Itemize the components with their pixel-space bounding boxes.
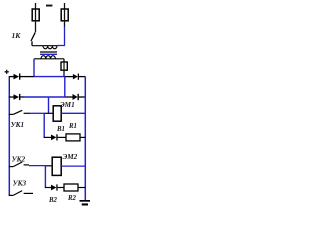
fuse F1 top-left lead wire <box>35 3 37 9</box>
svg-text:1К: 1К <box>12 31 22 40</box>
wire ЭМ1 to right rail <box>61 112 85 114</box>
svg-text:УК3: УК3 <box>13 180 27 188</box>
rail A wire <box>9 76 14 78</box>
relay coil ЭМ1 <box>53 106 61 121</box>
diode D4 on rail B right <box>73 94 78 100</box>
relay coil ЭМ2 <box>52 157 61 175</box>
wire УК1 to ЭМ1 <box>24 112 30 114</box>
diode В1 <box>51 135 56 141</box>
fuse F2 top-right lead wire <box>64 3 66 9</box>
ground symbol <box>80 200 91 202</box>
minus polarity mark <box>46 5 52 7</box>
fuse F3 <box>61 62 67 70</box>
svg-text:УК2: УК2 <box>12 155 26 163</box>
diode D2 on rail B <box>14 94 20 100</box>
wire R1 to right rail <box>80 136 85 138</box>
wire diode В2 to R2 <box>58 187 64 189</box>
svg-text:В2: В2 <box>48 197 58 204</box>
wire fuse F3 to rail A <box>63 70 65 77</box>
transformer core line black <box>40 51 57 53</box>
rail B wire <box>9 96 14 98</box>
diode D3 on rail A right <box>73 74 78 80</box>
relay contact УК2 <box>9 166 14 168</box>
fuse F1 <box>32 9 39 21</box>
transformer T primary winding <box>32 45 57 47</box>
plus polarity mark <box>5 70 9 74</box>
relay contact УК1 <box>9 113 14 115</box>
svg-text:R1: R1 <box>68 123 77 130</box>
resistor R1 <box>66 134 80 141</box>
wire fuse F2 down to transformer primary right <box>64 21 66 27</box>
svg-text:УК1: УК1 <box>11 121 24 129</box>
switch contact 1К blade <box>31 32 35 41</box>
wire quench branch 1 drop <box>43 113 45 137</box>
wire to diode В1 <box>44 136 51 138</box>
transformer T secondary winding <box>34 58 64 60</box>
right vertical rail wire <box>84 77 86 201</box>
fuse F2 <box>61 9 68 21</box>
wire diode В1 to R1 <box>58 136 66 138</box>
wire between rails at x65 <box>64 77 66 97</box>
diode D1 on rail A <box>14 74 20 80</box>
svg-text:ЭМ2: ЭМ2 <box>63 153 78 161</box>
wire fuse F1 to switch <box>35 21 37 32</box>
switch 1К lower terminal <box>31 41 33 45</box>
wire quench branch 2 drop <box>44 166 46 188</box>
wire ЭМ2 to right rail <box>61 165 85 167</box>
svg-text:В1: В1 <box>56 126 65 133</box>
svg-text:R2: R2 <box>67 195 77 202</box>
wire to diode В2 <box>45 187 51 189</box>
diode В2 <box>51 185 56 191</box>
resistor R2 <box>64 184 78 191</box>
wire УК2 to ЭМ2 <box>24 164 29 166</box>
wire R2 to right rail <box>78 187 85 189</box>
left vertical rail wire <box>8 77 10 92</box>
wire rail B tap down to ЭМ1 row <box>48 97 50 114</box>
svg-text:ЭМ1: ЭМ1 <box>60 101 75 109</box>
relay contact УК3 <box>9 194 14 196</box>
wire secondary right to fuse F3 <box>63 59 65 62</box>
transformer core line blue <box>40 53 57 55</box>
wire УК3 stub <box>24 192 33 194</box>
wire secondary left end down to rail A <box>33 59 35 77</box>
